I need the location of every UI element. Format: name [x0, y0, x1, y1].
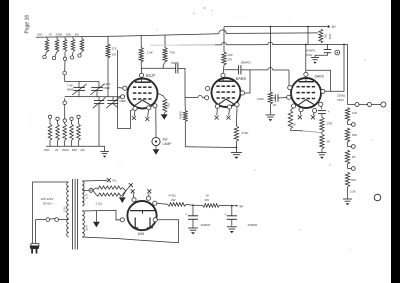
- B plus bus D: [224, 26, 327, 28]
- svg-text:6AK6: 6AK6: [315, 75, 324, 79]
- resistor bank2 R1: [49, 119, 51, 125]
- ground stub bank2: [104, 146, 106, 151]
- svg-text:10W: 10W: [328, 34, 332, 40]
- svg-text:2K: 2K: [49, 32, 53, 36]
- V3 filament X right: [311, 115, 315, 119]
- V2 pin 2: [206, 86, 210, 90]
- wire C1 to V2 grid: [178, 68, 185, 97]
- V2 cathode resistor 470K: [235, 107, 238, 126]
- svg-text:20Ω: 20Ω: [37, 32, 43, 36]
- svg-text:470Ω: 470Ω: [169, 193, 177, 197]
- right black border bar: [391, 0, 400, 283]
- V3 pin 2 left: [288, 86, 292, 90]
- V3 screen pin right: [321, 89, 325, 93]
- filter cap2 wire to ground: [231, 219, 233, 226]
- svg-text:2.5K: 2.5K: [350, 190, 356, 194]
- wire 1K to node2: [220, 204, 232, 206]
- svg-text:.05MFD: .05MFD: [240, 61, 252, 65]
- wire bus B down to jack line: [347, 44, 349, 104]
- divider resistor 1: [345, 108, 349, 122]
- V1 filament stub right: [148, 110, 149, 117]
- scan speckle dots: [193, 13, 194, 14]
- svg-text:2K: 2K: [55, 148, 59, 152]
- V2 plate pin top: [221, 73, 225, 77]
- junction dot node1: [192, 204, 194, 206]
- bank1 switch contacts: [43, 55, 46, 58]
- ground bars under 100K: [266, 114, 276, 116]
- svg-text:20K: 20K: [66, 32, 71, 36]
- svg-text:MMF: MMF: [120, 99, 127, 103]
- junction dot node2: [231, 205, 233, 207]
- V4 left pin wire: [116, 219, 120, 221]
- wire node to C2: [224, 69, 238, 71]
- transformer primary winding: [67, 182, 69, 237]
- V3 cathode pin: [292, 104, 296, 108]
- B plus output wire: [232, 205, 238, 207]
- junction dot D at divider: [307, 26, 309, 28]
- V2 pin bottom left: [215, 104, 219, 108]
- jack 1: [355, 103, 359, 107]
- hum ground arrow: [119, 197, 126, 203]
- HV winding bottom wire: [82, 237, 178, 243]
- V4 plate left: [134, 218, 136, 228]
- bank1 R3 wire to wiper: [64, 52, 66, 57]
- V1 plate stub: [141, 77, 143, 82]
- svg-text:10K: 10K: [352, 111, 357, 115]
- spare jack circle: [374, 194, 381, 201]
- V1 pin 2: [153, 104, 157, 108]
- resistor bank1 R4: [72, 36, 74, 39]
- svg-text:200K: 200K: [62, 148, 69, 152]
- trimmer cap 4: [112, 97, 114, 101]
- grid blocking cap V3: [273, 97, 276, 99]
- svg-text:75K: 75K: [170, 51, 176, 55]
- svg-text:6AK6: 6AK6: [236, 76, 247, 81]
- V3 pin lower right: [319, 102, 323, 106]
- svg-text:10K: 10K: [228, 53, 233, 57]
- wire 75K down to coupling node: [163, 62, 165, 68]
- svg-text:LAMP: LAMP: [163, 142, 173, 146]
- wire trimmer3 down to ground bus: [98, 104, 100, 147]
- bank1 R5 contact stub: [80, 52, 82, 55]
- resistor bank1 R1: [46, 37, 48, 40]
- V1 filament X right: [145, 117, 149, 121]
- HV winding top wire: [82, 210, 120, 220]
- svg-text:2K: 2K: [327, 140, 331, 144]
- resistor 2K lower: [321, 132, 323, 134]
- svg-text:FIL.: FIL.: [113, 179, 118, 183]
- bleeder vertical from D: [269, 27, 271, 92]
- junction dot D at bleeder: [270, 26, 272, 28]
- grid resistor 1MEG: [183, 111, 187, 122]
- V3 output coupling cap: [321, 106, 322, 109]
- wire cathode resistor to junction: [291, 129, 304, 131]
- V2 pin bottom mid: [227, 105, 231, 109]
- V4 pin top left: [132, 198, 136, 202]
- V1 cathode resistor 750: [157, 93, 165, 99]
- resistor 100K bleeder: [268, 92, 272, 104]
- B plus terminal dot: [327, 25, 329, 27]
- svg-text:200K: 200K: [56, 32, 63, 36]
- hum resistor join right: [123, 188, 126, 195]
- svg-text:.27M: .27M: [326, 122, 333, 126]
- bank1 R2 contact stub: [55, 52, 57, 57]
- junction dot B at x305: [305, 44, 307, 46]
- svg-text:20MFD: 20MFD: [201, 223, 212, 227]
- wire 2K to ground: [321, 149, 323, 152]
- svg-text:+: +: [328, 110, 330, 114]
- ground bars under 470K: [231, 152, 242, 154]
- HV ground arrow: [93, 222, 100, 228]
- svg-text:1K: 1K: [293, 123, 297, 127]
- svg-text:750: 750: [167, 103, 171, 108]
- V3 filament stub left: [299, 112, 302, 115]
- V2 grid pin 1: [205, 96, 209, 100]
- wire 1MEG to ground line: [184, 122, 186, 147]
- ground bars below bank2 bus: [100, 150, 109, 152]
- filter cap 1: [192, 205, 194, 216]
- tube V2 envelope: [212, 78, 241, 107]
- ground bars below 2K: [317, 152, 326, 154]
- V2 filament stub right: [228, 109, 231, 115]
- svg-text:1W: 1W: [112, 53, 117, 57]
- svg-text:5K: 5K: [352, 155, 356, 159]
- filament wire to X: [82, 179, 107, 182]
- trimmer cap 3 below grid line: [98, 97, 100, 101]
- divider resistor 2: [345, 128, 349, 142]
- tube V4 envelope: [127, 201, 156, 230]
- dropping resistor to B+: [319, 29, 323, 43]
- svg-text:470K: 470K: [242, 131, 249, 135]
- resistor bank2 R2: [57, 121, 59, 125]
- tap 1: [347, 121, 349, 125]
- svg-text:100K: 100K: [257, 97, 264, 101]
- input bus line A: [36, 34, 219, 38]
- HV winding lower: [82, 211, 84, 237]
- divider resistor 3: [345, 150, 349, 164]
- ground return line: [185, 146, 236, 149]
- filter cap 2: [231, 206, 233, 216]
- filter cap1 wire to ground: [192, 219, 194, 227]
- wire 470K to ground: [235, 142, 237, 153]
- wire join to X2: [126, 187, 130, 191]
- svg-text:750: 750: [324, 34, 328, 39]
- V4 pin left: [120, 218, 124, 222]
- hum balance resistor a: [93, 188, 96, 191]
- cathode feed vertical: [118, 50, 134, 129]
- wire C2 to V3 grid with hop: [241, 69, 268, 71]
- svg-text:150V: 150V: [306, 53, 313, 57]
- resistor .27M: [321, 114, 323, 118]
- svg-text:80K: 80K: [72, 148, 77, 152]
- resistor bank2 R4: [71, 121, 73, 125]
- V3 plate stub: [305, 76, 307, 81]
- svg-text:150V: 150V: [337, 98, 344, 102]
- wire trimmer4 lead: [113, 104, 118, 108]
- resistor bank1 R5: [81, 36, 83, 39]
- resistor 175 ohm input: [107, 36, 109, 44]
- wire 100K to ground: [269, 104, 271, 114]
- svg-text:+: +: [225, 212, 227, 216]
- tap 3: [347, 164, 349, 169]
- V2 feed vertical from D: [223, 27, 225, 52]
- svg-text:50K: 50K: [352, 133, 357, 137]
- svg-text:115V: 115V: [63, 206, 67, 212]
- V2 filament X right: [227, 116, 231, 120]
- bank1 R1 contact stub: [45, 52, 47, 56]
- wire from wiper to trimmer line: [64, 75, 66, 82]
- screen bus line B faint: [150, 44, 178, 46]
- V4 pin right lower: [153, 218, 157, 222]
- filament tap terminal: [89, 188, 93, 192]
- wire grid pin to grid resistor: [202, 97, 204, 99]
- wiper contact circle lower: [63, 101, 67, 105]
- svg-text:B+: B+: [240, 204, 244, 208]
- V3 plate to screen link: [306, 70, 330, 91]
- svg-text:500: 500: [351, 178, 356, 182]
- svg-text:2W: 2W: [228, 58, 233, 62]
- V1 grid pin 4: [121, 95, 125, 99]
- V2 plate stub: [222, 77, 224, 81]
- resistor bank1 R2: [56, 37, 58, 40]
- left black border bar: [0, 0, 9, 283]
- trimmer top line: [65, 81, 99, 83]
- bank2 bottom bus: [46, 145, 105, 147]
- coupling node wire: [141, 67, 176, 69]
- AC plug: [30, 246, 40, 250]
- HV bottom to V4 right pin: [157, 220, 178, 243]
- V3 filament stub right: [313, 113, 314, 116]
- filament winding upper: [82, 181, 84, 206]
- junction dot B at x344: [343, 44, 345, 46]
- junction dot ground node: [236, 147, 238, 149]
- svg-text:1MEG: 1MEG: [179, 111, 183, 119]
- jack 2: [368, 103, 372, 107]
- ground bars divider: [343, 198, 352, 200]
- V3 cathode resistor 1K: [291, 108, 293, 111]
- V3 pin bottom mid: [313, 109, 317, 113]
- V4 pin right upper: [153, 201, 157, 205]
- wire D to B at x308: [307, 27, 309, 45]
- jack line top: [348, 104, 356, 106]
- on-off switch: [36, 219, 46, 221]
- V3 filament X left: [298, 115, 302, 119]
- tap 2: [347, 142, 349, 147]
- filament X2: [129, 183, 133, 187]
- wire wiper to bank2: [64, 105, 66, 119]
- transformer core: [72, 179, 74, 250]
- terminal circle dot: [335, 50, 340, 55]
- svg-text:175: 175: [112, 47, 117, 51]
- filter cap 30MFD: [327, 45, 329, 50]
- wire V1 pin2 to lamp: [155, 108, 157, 137]
- wire from 175 ohm down to grid line: [107, 58, 109, 97]
- coupling capacitor C2: [238, 65, 240, 74]
- V4 filament stub left: [133, 193, 134, 197]
- svg-text:1.5K: 1.5K: [147, 51, 154, 55]
- V4 filament X left: [131, 189, 135, 193]
- V1 plate pin: [139, 73, 143, 77]
- svg-text:20Ω: 20Ω: [44, 148, 50, 152]
- grid node line: [65, 96, 121, 98]
- svg-text:6.3V: 6.3V: [85, 193, 89, 199]
- svg-text:2M: 2M: [75, 32, 80, 36]
- V3 screen wire to bus B: [325, 45, 344, 92]
- resistor 470 ohm: [168, 203, 187, 207]
- coupling capacitor C1: [175, 64, 177, 74]
- V1 pin 7: [147, 106, 151, 110]
- V4 filament X right: [147, 189, 151, 193]
- V1 filament stub left: [133, 111, 136, 117]
- svg-text:23MΩ: 23MΩ: [337, 93, 346, 97]
- V3 plate feed from bus B: [305, 45, 307, 73]
- wiper contact circle upper: [63, 71, 67, 75]
- resistor bank2 R3: [64, 122, 66, 124]
- svg-text:50-60 ~: 50-60 ~: [43, 201, 54, 205]
- wire 10K to V2 plate pin: [222, 65, 225, 73]
- svg-text:20MFD: 20MFD: [248, 223, 259, 227]
- line cord left wire: [33, 182, 69, 243]
- svg-text:B+: B+: [332, 25, 336, 29]
- V3 grid pin 1: [287, 95, 291, 99]
- svg-text:6X5: 6X5: [138, 232, 144, 236]
- V3 pin bottom left: [299, 108, 303, 112]
- wire divider to ground: [347, 187, 349, 199]
- wire 1.5K to plate pin: [140, 62, 142, 73]
- hum balance resistor b: [93, 190, 96, 194]
- V2 pin right: [240, 91, 244, 95]
- bank2 switch contacts: [48, 115, 51, 118]
- filament X1: [107, 178, 111, 182]
- pilot lamp 3W: [152, 137, 160, 145]
- svg-text:2.2Ω: 2.2Ω: [96, 202, 103, 206]
- wiper wire down from bank1: [64, 61, 66, 72]
- hum ground stub: [123, 191, 126, 197]
- V1 pin 5: [133, 106, 137, 110]
- svg-text:MMF: MMF: [67, 88, 74, 92]
- svg-text:Page 16: Page 16: [25, 15, 31, 34]
- V2 filament X left: [215, 116, 219, 120]
- svg-text:2W: 2W: [171, 198, 176, 202]
- svg-text:MF: MF: [273, 103, 277, 107]
- wire V4 to 470 ohm: [157, 202, 168, 205]
- V4 plate right: [149, 218, 151, 228]
- svg-text:1K: 1K: [206, 193, 210, 197]
- ground bars cap1: [188, 227, 198, 229]
- lamp ground arrow: [155, 146, 157, 150]
- svg-text:2W: 2W: [205, 198, 210, 202]
- divider resistor 4: [345, 172, 349, 187]
- resistor bank2 R5: [78, 119, 80, 125]
- bank1 R4 contact stub: [71, 52, 74, 56]
- V1 filament X left: [132, 116, 136, 120]
- bus line C continuation: [226, 32, 318, 35]
- resistor bank1 R3: [64, 37, 66, 40]
- V2 pin bottom right: [235, 103, 239, 107]
- plate load resistor 1.5K: [140, 36, 142, 48]
- svg-text:350V: 350V: [85, 225, 89, 231]
- resistor 1K 2W: [193, 204, 203, 206]
- tube V1 6SJ7 envelope: [128, 79, 158, 109]
- wire 470 to node1: [186, 203, 193, 206]
- tube V3 envelope: [291, 78, 321, 108]
- svg-text:MMF: MMF: [104, 86, 111, 90]
- plate resistor 10K: [222, 52, 226, 65]
- svg-text:30MFD: 30MFD: [306, 49, 317, 53]
- svg-text:+: +: [186, 212, 188, 216]
- V1 cathode ground arrow: [163, 113, 165, 115]
- jack 3: [381, 102, 386, 107]
- ground bars cap2: [227, 226, 237, 228]
- V4 heater bar: [130, 210, 155, 212]
- V2 filament stub left: [216, 108, 219, 115]
- wire hop on bus over tube2 plate vertical: [219, 30, 226, 34]
- V4 filament stub right: [148, 193, 151, 196]
- filter cap ground: [315, 53, 328, 57]
- V3 plate pin: [304, 72, 308, 76]
- V4 pin top right: [146, 196, 150, 200]
- line cord right wire: [35, 220, 37, 243]
- svg-text:6SJ7: 6SJ7: [146, 73, 156, 78]
- screen bus line B: [215, 44, 222, 46]
- screen resistor 75K: [164, 35, 166, 47]
- HV center ground stub: [95, 211, 97, 222]
- svg-text:2M: 2M: [81, 148, 86, 152]
- V2 plate wire to C2 node: [245, 70, 251, 93]
- V1 pin 3: [123, 86, 127, 90]
